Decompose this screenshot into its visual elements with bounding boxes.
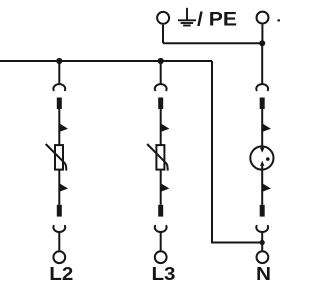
node junction N bottom [260, 240, 265, 245]
wire L2 bottom stem [58, 232, 60, 251]
wire L2 upper [58, 109, 60, 145]
fuse thermal disconnect FNb [260, 205, 265, 217]
fuse thermal disconnect F3a [158, 98, 163, 110]
wire L2 lower [58, 169, 60, 205]
svg-text:L2: L2 [49, 264, 73, 284]
wire L3 lower [160, 169, 162, 205]
node junction L2 [56, 58, 62, 64]
arrow disconnect indicator N lower [262, 183, 271, 192]
connector socket bottom N [256, 226, 268, 232]
connector socket top L3 [155, 84, 167, 90]
node junction L3 [158, 58, 164, 64]
arrow disconnect indicator L2 upper [59, 123, 68, 131]
wire N top stem [261, 25, 263, 44]
wire main bus L [0, 60, 212, 62]
connector socket top L2 [53, 84, 65, 90]
wire PE stem [162, 25, 164, 43]
wire PE to N branch [163, 42, 262, 44]
svg-text:N: N [256, 264, 271, 284]
varistor MOV L3 [156, 145, 164, 170]
spark gap N-PE [250, 146, 273, 169]
wire N stem [261, 43, 263, 84]
connector socket bottom L2 [53, 226, 65, 232]
fuse thermal disconnect F2b [57, 205, 62, 217]
terminal N top circle [257, 12, 269, 24]
arrow disconnect indicator L2 lower [59, 183, 68, 192]
fuse thermal disconnect FNa [260, 98, 265, 110]
wire L3 upper [160, 109, 162, 145]
wire bus drop to N bottom [212, 61, 262, 243]
terminal L3 circle [155, 251, 167, 263]
node junction PE/N [259, 40, 265, 46]
arrow disconnect indicator L3 lower [161, 183, 170, 192]
svg-text:L3: L3 [152, 264, 176, 284]
fuse thermal disconnect F3b [158, 205, 163, 217]
connector socket bottom L3 [155, 226, 167, 232]
wire L3 bottom stem [160, 232, 162, 251]
wire N lower [261, 166, 263, 205]
wire N bottom stem [261, 232, 263, 251]
ground (earth PE symbol) [178, 8, 196, 26]
terminal L2 circle [53, 251, 65, 263]
arrow disconnect indicator N upper [262, 123, 271, 131]
connector socket top N [256, 84, 268, 90]
svg-text:/ PE: / PE [197, 9, 237, 30]
wire L2 stem [58, 61, 60, 84]
varistor MOV L2 [55, 145, 63, 170]
fuse thermal disconnect F2a [57, 98, 62, 110]
wire L3 stem [160, 61, 162, 84]
wire N upper [261, 109, 263, 147]
terminal PE (top circle) [157, 12, 169, 24]
arrow disconnect indicator L3 upper [161, 123, 170, 131]
terminal N circle [257, 251, 269, 263]
wire edge dash right [277, 19, 280, 21]
